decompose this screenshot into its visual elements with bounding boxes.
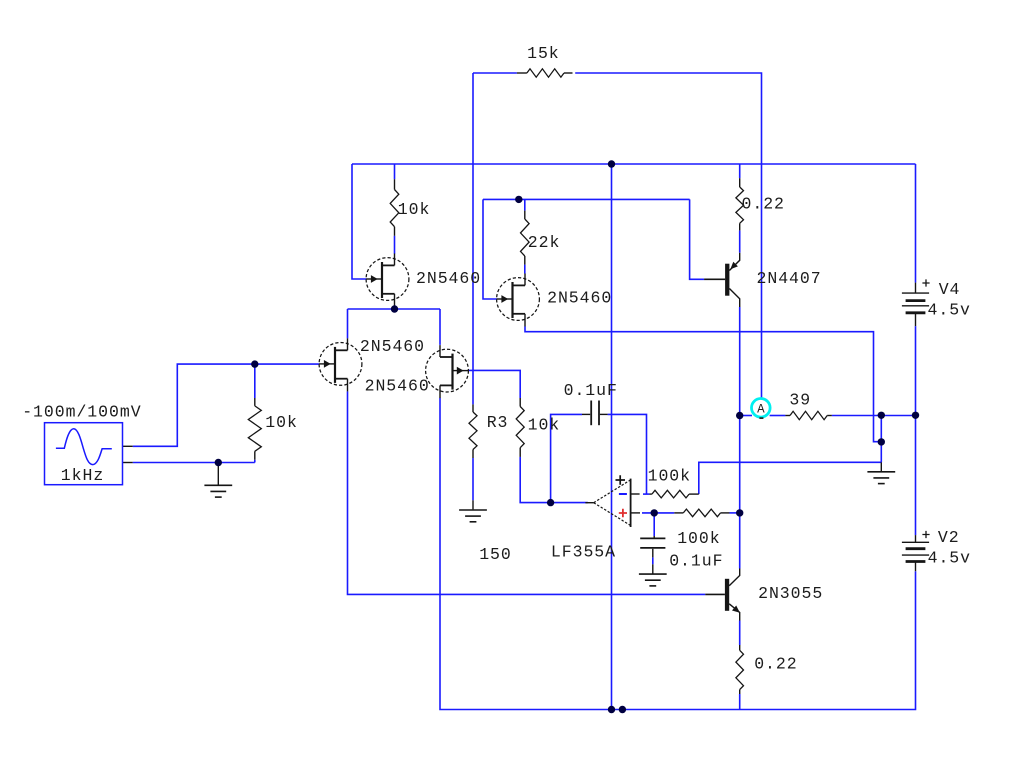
svg-text:V4: V4 — [939, 280, 961, 299]
svg-text:2N5460: 2N5460 — [365, 376, 430, 395]
svg-text:39: 39 — [789, 391, 811, 410]
svg-text:4.5v: 4.5v — [928, 548, 971, 567]
svg-text:10k: 10k — [398, 200, 431, 219]
svg-text:-100m/100mV: -100m/100mV — [22, 403, 141, 422]
svg-text:2N5460: 2N5460 — [547, 289, 612, 308]
svg-text:R3: R3 — [487, 413, 509, 432]
svg-text:A: A — [757, 402, 765, 416]
svg-text:0.1uF: 0.1uF — [669, 552, 723, 571]
svg-text:LF355A: LF355A — [551, 543, 616, 562]
svg-text:2N5460: 2N5460 — [360, 337, 425, 356]
svg-text:10k: 10k — [265, 413, 298, 432]
svg-text:4.5v: 4.5v — [928, 301, 971, 320]
svg-text:1kHz: 1kHz — [61, 466, 104, 485]
svg-text:10k: 10k — [528, 416, 561, 435]
svg-text:22k: 22k — [528, 233, 561, 252]
svg-text:15k: 15k — [527, 44, 560, 63]
svg-text:100k: 100k — [648, 467, 691, 486]
svg-text:0.22: 0.22 — [742, 194, 785, 213]
svg-text:V2: V2 — [938, 528, 960, 547]
svg-text:150: 150 — [479, 545, 512, 564]
svg-text:2N3055: 2N3055 — [758, 584, 823, 603]
svg-text:2N5460: 2N5460 — [416, 269, 481, 288]
svg-text:100k: 100k — [677, 529, 720, 548]
svg-text:0.1uF: 0.1uF — [564, 381, 618, 400]
svg-text:0.22: 0.22 — [754, 654, 797, 673]
svg-text:2N4407: 2N4407 — [757, 269, 822, 288]
